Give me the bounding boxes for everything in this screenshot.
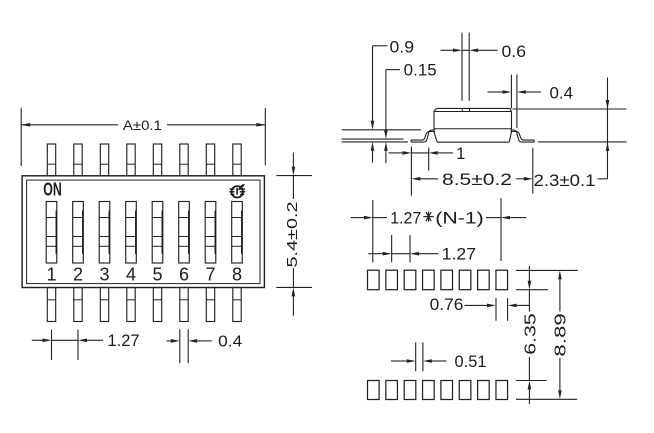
dimension 0.4 pin width: [167, 329, 243, 363]
dimension A±0.1 overall length: [21, 108, 265, 166]
dimension 6.35 inner pad spacing: [516, 266, 548, 404]
svg-text:1: 1: [46, 265, 56, 285]
seating plane reference line: [342, 141, 408, 143]
lead-top reference line: [342, 129, 421, 131]
svg-text:0.4: 0.4: [550, 84, 574, 102]
svg-text:8: 8: [232, 265, 242, 285]
svg-text:1: 1: [456, 145, 465, 163]
svg-text:1.27: 1.27: [442, 246, 477, 264]
right gull-wing lead: [511, 130, 535, 142]
dimension 8.89 outer pad span: [516, 270, 578, 399]
svg-text:0.9: 0.9: [390, 38, 415, 56]
switch body outer outline: [22, 176, 264, 288]
top pad row: [368, 270, 508, 290]
svg-text:2.3±0.1: 2.3±0.1: [534, 172, 596, 190]
dimension 8.5±0.2 overall lead span: [411, 148, 532, 194]
dimension 1.27 pad pitch: [368, 235, 476, 264]
top pins row: [47, 144, 241, 176]
side view body outline: [434, 108, 512, 142]
svg-text:6.35: 6.35: [523, 313, 540, 355]
position numbers 1-8: [46, 265, 242, 285]
svg-text:1.27: 1.27: [390, 209, 421, 227]
dimension 1.27*(N-1) pad span: [351, 198, 527, 263]
svg-text:1.27: 1.27: [108, 331, 140, 350]
svg-text:0.76: 0.76: [430, 296, 464, 314]
dimension 0.9 lead height: [371, 38, 414, 162]
svg-text:6: 6: [179, 265, 189, 285]
svg-text:0.6: 0.6: [502, 43, 527, 61]
dimension 0.4 lead thickness: [488, 75, 574, 128]
svg-text:0.15: 0.15: [404, 62, 437, 80]
svg-text:5: 5: [152, 265, 162, 285]
left gull-wing lead: [411, 130, 435, 142]
dimension 0.51 pad gap: [391, 342, 487, 371]
svg-text:8.89: 8.89: [553, 313, 570, 356]
dimension 0.76 pad width: [430, 296, 530, 321]
dimension 1 foot length: [389, 145, 466, 196]
svg-text:8.5±0.2: 8.5±0.2: [442, 171, 512, 189]
dimension 0.6 actuator width: [441, 33, 527, 101]
bottom pins row: [47, 288, 241, 322]
svg-text:7: 7: [205, 265, 215, 285]
switch body inner outline: [27, 180, 260, 284]
manufacturer logo: [229, 184, 245, 198]
svg-text:2: 2: [73, 265, 83, 285]
svg-text:3: 3: [99, 265, 109, 285]
svg-text:ON: ON: [43, 180, 62, 200]
svg-text:5.4±0.2: 5.4±0.2: [284, 202, 301, 268]
ON label: [43, 180, 62, 200]
switch slots 1-8: [46, 202, 242, 264]
svg-text:(N-1): (N-1): [435, 209, 484, 227]
svg-text:4: 4: [126, 265, 136, 285]
dimension 5.4±0.2 body width: [276, 153, 312, 316]
svg-text:0.4: 0.4: [218, 333, 242, 350]
dimension 1.27 pin pitch: [32, 330, 140, 360]
body-bottom reference line: [342, 138, 404, 140]
bottom pad row: [368, 381, 508, 400]
dimension 0.15 standoff: [384, 62, 437, 163]
svg-text:A±0.1: A±0.1: [123, 118, 162, 134]
svg-text:0.51: 0.51: [455, 353, 487, 371]
dimension 2.3±0.1 overall height: [513, 78, 627, 190]
